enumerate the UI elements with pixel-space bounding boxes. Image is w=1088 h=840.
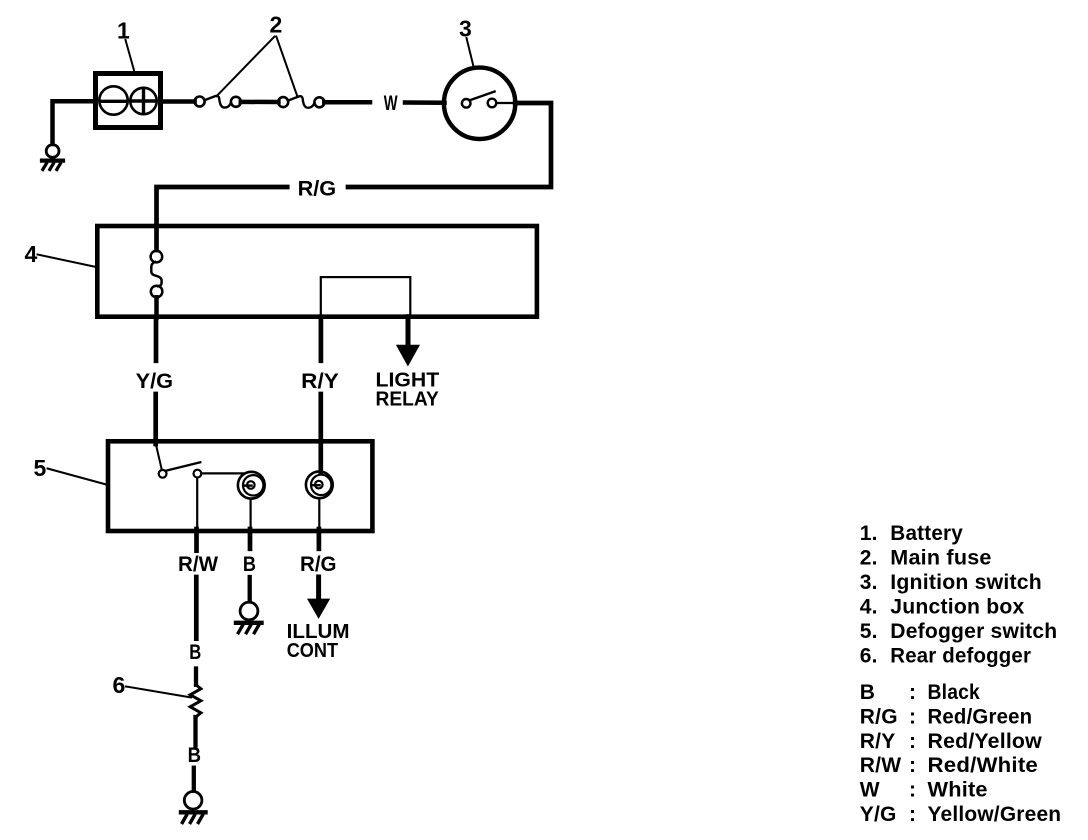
label 2 with two leaders: [217, 12, 298, 97]
svg-text:W: W: [860, 778, 880, 801]
svg-text:6: 6: [113, 672, 126, 698]
wire fuse1 to fuse2: [241, 100, 279, 105]
svg-text::: :: [909, 778, 916, 801]
label 4: [25, 241, 98, 267]
svg-text:RELAY: RELAY: [376, 388, 440, 410]
switch contacts inside defogger switch: [156, 444, 243, 529]
svg-text:R/W: R/W: [178, 553, 218, 576]
lamp L1 (defogger indicator): [238, 472, 265, 529]
wire ignition to R/G corner: [348, 103, 551, 187]
svg-text:5: 5: [34, 455, 47, 481]
svg-text:3: 3: [459, 16, 472, 42]
svg-text::: :: [909, 730, 916, 753]
svg-text:Ignition switch: Ignition switch: [890, 571, 1042, 594]
svg-text::: :: [909, 754, 916, 777]
label 1: [117, 18, 135, 73]
wire R/Y out of junction box: [319, 317, 324, 361]
wire B below defogger switch: [248, 529, 253, 549]
svg-text:Main fuse: Main fuse: [890, 547, 991, 570]
rear defogger 6 (resistor): [190, 685, 201, 717]
wire R/Y into defogger switch to lamp: [318, 394, 323, 472]
svg-text:CONT: CONT: [287, 640, 338, 662]
svg-text:Yellow/Green: Yellow/Green: [928, 803, 1062, 826]
ground G3 (rear defogger): [181, 792, 206, 823]
svg-text:R/Y: R/Y: [301, 370, 339, 393]
wire Y/G out of junction box: [154, 317, 159, 361]
label 3: [459, 16, 474, 69]
svg-text:3.: 3.: [860, 571, 878, 594]
battery 1: [96, 74, 161, 128]
svg-text:Junction box: Junction box: [890, 596, 1024, 619]
legend wire colour codes: [860, 681, 1062, 826]
label 6: [113, 672, 192, 698]
svg-text:Red/Green: Red/Green: [928, 705, 1033, 728]
fuse F3 (vertical, in junction box): [151, 251, 163, 318]
arrow LIGHT RELAY: [396, 345, 420, 367]
svg-text:White: White: [928, 778, 988, 801]
svg-text:Y/G: Y/G: [136, 370, 174, 393]
svg-text:2: 2: [270, 12, 283, 38]
svg-text:Red/Yellow: Red/Yellow: [928, 730, 1043, 753]
svg-text:W: W: [384, 91, 399, 114]
svg-text:B: B: [860, 681, 875, 704]
svg-text:4.: 4.: [860, 596, 878, 619]
wire R/G left segment into junction box: [157, 187, 288, 250]
svg-text:6.: 6.: [860, 645, 878, 668]
svg-text:Defogger switch: Defogger switch: [890, 620, 1057, 643]
svg-text:Rear defogger: Rear defogger: [890, 645, 1031, 668]
label ILLUM CONT: [287, 621, 350, 662]
main fuse F1: [195, 96, 241, 108]
svg-text:5.: 5.: [860, 620, 878, 643]
svg-text:Red/White: Red/White: [928, 754, 1039, 777]
svg-text:B: B: [189, 641, 201, 664]
svg-text:1: 1: [117, 18, 130, 44]
wire to light relay: [406, 317, 411, 346]
svg-text:Battery: Battery: [890, 522, 963, 545]
svg-text::: :: [909, 803, 916, 826]
svg-text:1.: 1.: [860, 522, 878, 545]
wire R/G arrow stem: [316, 577, 321, 599]
svg-text:R/Y: R/Y: [860, 730, 896, 753]
svg-text:R/G: R/G: [860, 705, 898, 728]
svg-text:2.: 2.: [860, 547, 878, 570]
connector (inner rectangle of junction box): [321, 277, 411, 317]
wire R/W below defogger switch: [194, 529, 199, 551]
ground G1: [42, 145, 63, 170]
junction box 4: [97, 226, 537, 317]
svg-text::: :: [909, 681, 916, 704]
wire resistor to B label: [193, 717, 197, 746]
wire fuse2 to W: [324, 100, 370, 105]
svg-text:B: B: [243, 553, 256, 576]
legend component list: [860, 522, 1058, 668]
wire B to ground: [192, 768, 196, 791]
wire W to ignition switch: [405, 100, 445, 105]
svg-text:R/G: R/G: [300, 553, 337, 576]
label LIGHT RELAY: [376, 370, 440, 411]
lamp L2 (illumination): [306, 471, 333, 528]
main fuse F2: [278, 96, 324, 108]
wire B to ground: [248, 577, 252, 602]
svg-text:Black: Black: [928, 681, 981, 704]
ground G2 (defogger switch): [236, 602, 262, 633]
wire R/W continues: [194, 577, 199, 639]
wire battery negative to ground: [53, 101, 96, 144]
svg-text:4: 4: [25, 241, 38, 267]
arrow ILLUM CONT: [307, 599, 330, 619]
svg-text::: :: [909, 705, 916, 728]
defogger switch 5 (box): [108, 441, 372, 531]
svg-text:Y/G: Y/G: [860, 803, 897, 826]
wire R/G below defogger switch: [317, 529, 322, 549]
ignition switch 3: [444, 68, 515, 139]
wire Y/G into defogger switch: [153, 394, 158, 444]
svg-text:R/G: R/G: [298, 177, 337, 200]
svg-text:B: B: [188, 744, 201, 767]
wire B to resistor: [194, 669, 198, 685]
wire battery to fuse 1: [161, 99, 195, 104]
label 5: [34, 455, 109, 485]
svg-text:R/W: R/W: [860, 754, 901, 777]
